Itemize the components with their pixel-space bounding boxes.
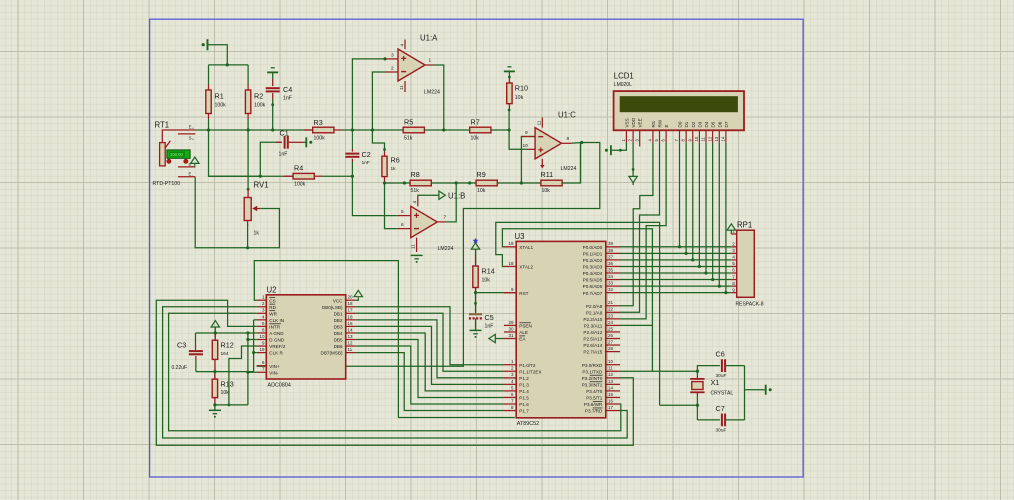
node C1 riser on R4 row [259, 175, 262, 178]
svg-text:10k: 10k [221, 390, 230, 396]
svg-text:10k: 10k [477, 188, 486, 194]
pin 4 stem U1:B with right arrow terminal [417, 197, 419, 207]
wire P0.5 row [620, 279, 731, 281]
svg-text:R13: R13 [221, 380, 234, 389]
pin 28 P2.7/A15 of U3 [606, 351, 620, 353]
svg-text:P2.7/A15: P2.7/A15 [583, 350, 602, 355]
node U1:B output riser [455, 181, 458, 184]
wire C6 right [725, 365, 744, 367]
wire R9 to R11 [497, 182, 541, 184]
pin 9 RST of U3 [504, 292, 516, 294]
svg-text:P2.4/A12: P2.4/A12 [583, 330, 602, 335]
svg-text:RD: RD [269, 305, 276, 310]
svg-text:D0: D0 [678, 121, 683, 127]
svg-text:VIN+: VIN+ [269, 364, 280, 369]
pin 20 VCC of U2 with power terminal [346, 299, 356, 301]
svg-text:17: 17 [608, 405, 614, 410]
wire U1:B pin5 stub [398, 215, 411, 217]
svg-text:P0.0/AD0: P0.0/AD0 [583, 245, 603, 250]
pin 6 of RP1 [731, 272, 736, 274]
svg-text:R2: R2 [254, 92, 263, 101]
wire crystal top node up to C6 row [697, 366, 720, 372]
svg-text:11: 11 [399, 85, 405, 90]
svg-text:12: 12 [608, 372, 614, 377]
svg-text:38: 38 [608, 248, 614, 253]
svg-text:15: 15 [608, 392, 614, 397]
svg-text:R6: R6 [391, 156, 400, 165]
capacitor C5 [469, 313, 482, 315]
wire U1:A output [425, 64, 433, 66]
wire P0.4 row [620, 272, 731, 274]
svg-text:164: 164 [221, 351, 229, 357]
pin S+ of RT1 [178, 133, 195, 135]
svg-text:DB0(LSB): DB0(LSB) [322, 305, 343, 310]
resistor pack RP1 RESPACK-8 [737, 230, 755, 297]
ground above C4 [267, 71, 278, 73]
svg-text:RS: RS [651, 121, 656, 127]
wire AGND DGND VIN- R13 tie riser [247, 333, 249, 405]
wire DB1 to P1.1 [355, 313, 504, 371]
op-amp U1:B [411, 206, 438, 237]
node op-amp feedback riser [371, 128, 374, 131]
pin 11 stem U1:A [404, 81, 406, 92]
wire R1 R2 top rail [209, 64, 249, 66]
svg-text:51k: 51k [411, 188, 420, 194]
wire P0.1 row [620, 252, 731, 254]
svg-text:C6: C6 [716, 350, 725, 359]
wire DB6 to P1.6 [355, 346, 504, 404]
wire R12 bottom [214, 359, 216, 371]
wire crystal bottom node to XTAL2 column [660, 404, 698, 406]
svg-text:D5: D5 [711, 121, 716, 127]
pin 10 D GND of U2 [257, 339, 267, 341]
pin 16 P3.6/WR of U3 [606, 403, 620, 405]
svg-text:100k: 100k [254, 103, 266, 109]
svg-text:11: 11 [701, 136, 706, 141]
svg-text:10k: 10k [471, 136, 480, 142]
wire DB3 to P1.3 [355, 326, 504, 384]
svg-text:RT1: RT1 [155, 121, 170, 130]
pin 6 P1.5 of U3 [504, 396, 516, 398]
svg-text:DB7(MSB): DB7(MSB) [321, 351, 343, 356]
svg-text:LCD1: LCD1 [614, 72, 634, 81]
svg-text:12: 12 [348, 340, 354, 345]
capacitor C2 [345, 153, 359, 155]
pin 23 P2.2/A10 of U3 [606, 318, 620, 320]
wire CLK IN stub [254, 319, 257, 321]
wire CLK riser to CLK IN [253, 320, 255, 372]
pin 36 P0.3/AD3 of U3 [606, 265, 620, 267]
capacitor C1 [284, 136, 286, 149]
pin 11 stem U1:B with ground [416, 238, 418, 252]
svg-text:3: 3 [391, 53, 394, 59]
pin 30 ALE of U3 [504, 331, 516, 333]
svg-text:26: 26 [608, 333, 614, 338]
resistor R1 [206, 90, 211, 114]
svg-text:29: 29 [508, 320, 514, 325]
wire R1 node to R4 row [209, 130, 261, 176]
svg-text:P1.7: P1.7 [519, 409, 529, 414]
node E+ R1 [207, 128, 210, 131]
svg-text:0.22uF: 0.22uF [172, 365, 188, 371]
svg-text:13: 13 [714, 136, 719, 141]
wire R4 to C2 bottom node [322, 175, 352, 177]
wire right column [744, 366, 746, 420]
capacitor C6 [721, 359, 723, 372]
sensor RT1 RTD-PT100 [160, 143, 166, 166]
wire DB0 to P1.0 [355, 307, 504, 365]
capacitor C3 [195, 346, 197, 350]
resistor R10 [507, 83, 512, 104]
svg-text:P3.5/T1: P3.5/T1 [586, 396, 603, 401]
wire R14 bottom to RST [475, 288, 477, 293]
svg-text:C5: C5 [485, 313, 494, 322]
wire WR bus [169, 313, 621, 431]
svg-text:RW: RW [658, 119, 663, 127]
svg-text:20: 20 [348, 295, 354, 300]
svg-text:D6: D6 [717, 121, 722, 127]
node [403, 181, 406, 184]
wire P0.0 row [620, 246, 731, 248]
svg-text:C7: C7 [716, 404, 725, 413]
wire R10 bottom [508, 104, 510, 110]
pin 32 P0.7/AD7 of U3 [606, 292, 620, 294]
svg-text:P0.2/AD2: P0.2/AD2 [583, 258, 603, 263]
svg-text:P1.3: P1.3 [519, 382, 529, 387]
svg-text:12: 12 [707, 136, 712, 141]
svg-text:DB5: DB5 [334, 338, 343, 343]
wire R6 jog from feedback node [372, 130, 384, 152]
pin 17 DB1 of U2 [346, 312, 356, 314]
pin 11 stem U1:C [541, 118, 543, 128]
wire C5 bottom to ground [475, 318, 477, 330]
wire R13 bottom [214, 398, 216, 405]
pin 35 P0.4/AD4 of U3 [606, 272, 620, 274]
wire output feedback down [580, 143, 582, 184]
pin 5 of RP1 [731, 265, 736, 267]
svg-text:32: 32 [608, 287, 614, 292]
wire main row [196, 129, 313, 131]
wire [508, 71, 510, 78]
svg-text:XTAL1: XTAL1 [519, 245, 533, 250]
ground arrow below VDD [629, 176, 637, 182]
svg-text:RST: RST [519, 291, 528, 296]
svg-text:U3: U3 [515, 232, 525, 241]
svg-text:18: 18 [508, 261, 514, 266]
wire R7 right [491, 129, 509, 131]
capacitor C4 [266, 87, 280, 89]
svg-text:13: 13 [608, 379, 614, 384]
svg-text:EA: EA [519, 337, 526, 342]
pin 15 P3.5/T1 of U3 [606, 396, 620, 398]
pin 14 P3.4/T0 of U3 [606, 390, 620, 392]
pin 8 of RP1 [731, 285, 736, 287]
svg-text:10: 10 [259, 334, 265, 339]
pin 13 P3.3/INT1 of U3 [606, 383, 620, 385]
svg-text:P2.3/A11: P2.3/A11 [584, 324, 603, 329]
svg-text:24: 24 [608, 320, 614, 325]
pin 8 P1.7 of U3 [504, 410, 516, 412]
wire R1 bottom [208, 114, 210, 120]
ground above R10 [504, 70, 515, 72]
wire LCD D0 riser [679, 143, 681, 247]
wire R5 to R7 [424, 129, 469, 131]
svg-text:27: 27 [608, 339, 614, 344]
wire R12 top stub [214, 333, 216, 340]
svg-text:11: 11 [411, 244, 417, 249]
svg-text:VEE: VEE [638, 118, 643, 127]
pin 27 P2.6/A14 of U3 [606, 344, 620, 346]
svg-text:E: E [664, 124, 669, 127]
svg-text:1nF: 1nF [485, 324, 494, 330]
svg-text:U2: U2 [267, 285, 277, 294]
wire U1:C output [562, 142, 572, 144]
pin 2 RD of U2 [257, 306, 267, 308]
wire C2 top [351, 130, 353, 149]
pin 19 XTAL1 of U3 [504, 246, 516, 248]
IC U3 AT89C52 body [516, 241, 606, 417]
pin 5 INTR of U2 [257, 325, 267, 327]
wire LCD D6 riser [718, 143, 720, 286]
svg-text:P3.7/RD: P3.7/RD [585, 409, 603, 414]
wire XTAL2 route [496, 222, 660, 405]
svg-text:21: 21 [608, 300, 614, 305]
wire R14 top [475, 255, 477, 266]
pin 7 of RP1 [731, 279, 736, 281]
pin 1 P1.0/T2 of U3 [504, 364, 516, 366]
node C4 bottom [271, 128, 274, 131]
node R6 bottom on R8 row [383, 181, 386, 184]
node A GND riser [246, 331, 249, 334]
svg-text:19: 19 [259, 347, 265, 352]
wire LCD D5 riser [712, 143, 714, 280]
svg-text:VCC: VCC [333, 298, 343, 303]
wire to ground right [745, 389, 766, 391]
pin 18 DB0(LSB) of U2 [346, 306, 356, 308]
svg-text:R10: R10 [515, 84, 528, 93]
wire C4 bottom [272, 93, 274, 99]
svg-text:P1.0/T2: P1.0/T2 [519, 363, 536, 368]
pin 24 P2.3/A11 of U3 [606, 324, 620, 326]
pin 7 P1.6 of U3 [504, 403, 516, 405]
pin 3 WR of U2 [257, 312, 267, 314]
svg-text:7: 7 [444, 215, 447, 221]
pin 12 P3.2/INT0 of U3 [606, 377, 620, 379]
svg-text:35: 35 [608, 267, 614, 272]
svg-text:D7: D7 [724, 121, 729, 127]
pin 19 CLK R of U2 [257, 352, 267, 354]
svg-text:INTR: INTR [269, 325, 280, 330]
pin 39 P0.0/AD0 of U3 [606, 246, 620, 248]
svg-text:P1.4: P1.4 [519, 389, 529, 394]
svg-text:CLK IN: CLK IN [269, 318, 284, 323]
svg-text:P0.4/AD4: P0.4/AD4 [583, 271, 603, 276]
svg-text:100k: 100k [294, 182, 306, 188]
svg-text:X1: X1 [711, 378, 720, 387]
svg-text:A GND: A GND [269, 331, 284, 336]
node D GND [246, 338, 249, 341]
pin 33 P0.6/AD6 of U3 [606, 285, 620, 287]
resistor R7 [470, 127, 491, 133]
wire A GND corner down to C3 top [195, 333, 197, 346]
node C2 top [351, 128, 354, 131]
svg-text:P1.5: P1.5 [519, 396, 529, 401]
svg-text:14: 14 [721, 136, 726, 141]
terminal arrow at EA [489, 334, 495, 342]
svg-text:CLK R: CLK R [269, 351, 283, 356]
svg-text:28: 28 [608, 346, 614, 351]
svg-text:P3.6/WR: P3.6/WR [584, 402, 603, 407]
svg-text:R12: R12 [221, 341, 234, 350]
wire P0.7 row [620, 292, 731, 294]
svg-text:VSS: VSS [624, 118, 629, 127]
svg-text:100.00: 100.00 [170, 152, 183, 157]
LCD1 LM020L display [614, 91, 744, 130]
svg-text:DB2: DB2 [334, 318, 343, 323]
wire [209, 45, 228, 65]
node CLK R tie [252, 351, 255, 354]
svg-text:+: + [192, 137, 194, 141]
svg-text:10: 10 [694, 136, 699, 141]
wire DB2 to P1.2 [355, 320, 504, 378]
wire to R5 [372, 129, 403, 131]
resistor R5 [403, 127, 424, 133]
svg-text:LM224: LM224 [424, 90, 440, 96]
pin S- of RT1 with terminal [178, 166, 195, 168]
svg-text:2: 2 [391, 66, 394, 72]
svg-text:P0.6/AD6: P0.6/AD6 [583, 284, 603, 289]
wire R1 top [208, 65, 210, 85]
svg-text:RV1: RV1 [254, 180, 269, 189]
svg-text:RTD-PT100: RTD-PT100 [153, 181, 181, 187]
capacitor C7 [697, 419, 720, 421]
wiper of RV1 [252, 206, 257, 211]
resistor R12 [212, 340, 217, 359]
ground right of C1 [305, 137, 307, 147]
op-amp U1:C [535, 128, 561, 159]
wire C1 left to R4 row [260, 142, 282, 176]
wire RW to P2.1 [620, 143, 660, 312]
wire RS to P2.0 [620, 143, 653, 306]
wire R11 right to feedback riser [562, 143, 580, 184]
wire CLK row right [215, 371, 254, 373]
svg-text:18: 18 [348, 301, 354, 306]
wire U1:C pin9 input [521, 137, 535, 184]
svg-text:D2: D2 [691, 121, 696, 127]
pin 2 of RP1 [731, 246, 736, 248]
svg-text:10k: 10k [482, 278, 491, 284]
wire LCD D7 riser [725, 143, 727, 293]
svg-text:7: 7 [262, 367, 265, 373]
svg-text:DB6: DB6 [334, 344, 343, 349]
op-amp U1:A [398, 49, 425, 81]
svg-text:39: 39 [608, 241, 614, 246]
pin 26 P2.5/A13 of U3 [606, 338, 620, 340]
IC U2 ADC0804 body [266, 295, 345, 379]
svg-text:DB1: DB1 [334, 311, 343, 316]
resistor R13 [212, 379, 217, 398]
svg-text:33: 33 [608, 281, 614, 286]
wire R13 top [214, 372, 216, 380]
svg-text:R11: R11 [541, 170, 554, 179]
pin 38 P0.1/AD1 of U3 [606, 252, 620, 254]
wire C2 bottom [351, 159, 353, 162]
wire XTAL1 route [502, 229, 652, 371]
svg-text:100k: 100k [215, 103, 227, 109]
svg-text:R14: R14 [482, 267, 495, 276]
node VIN- tie [246, 371, 249, 374]
svg-text:AT89C52: AT89C52 [517, 421, 539, 427]
wire U1:B pin6 input [385, 183, 398, 229]
node output [580, 141, 583, 144]
wire P0.3 row [620, 265, 731, 267]
svg-text:11: 11 [537, 120, 543, 125]
wire output to VIN+ long path [257, 143, 600, 367]
svg-text:R8: R8 [411, 170, 420, 179]
svg-text:P0.7/AD7: P0.7/AD7 [583, 291, 603, 296]
node RV1 bottom [246, 246, 249, 249]
svg-text:11: 11 [348, 347, 353, 352]
pin 5 P1.4 of U3 [504, 390, 516, 392]
svg-text:ALE: ALE [519, 330, 528, 335]
pin 34 P0.5/AD5 of U3 [606, 279, 620, 281]
svg-text:25: 25 [608, 326, 614, 331]
svg-text:P2.5/A13: P2.5/A13 [583, 337, 602, 342]
svg-text:1: 1 [429, 58, 432, 64]
wire C3 bottom [195, 356, 197, 360]
node A GND R12 arrow [214, 331, 217, 334]
svg-text:XTAL2: XTAL2 [519, 265, 533, 270]
node junction [226, 63, 229, 66]
node R12 R13 C3 CLK [213, 370, 216, 373]
svg-text:P2.0/A8: P2.0/A8 [586, 304, 603, 309]
svg-text:+: + [192, 127, 194, 131]
pin 9 VREF/2 of U2 [257, 345, 267, 347]
crystal X1 [696, 371, 698, 375]
pin E+ of RT1 [162, 130, 195, 143]
svg-text:D GND: D GND [269, 338, 284, 343]
wire RD bus [163, 307, 628, 438]
wire R6 bottom [384, 177, 386, 183]
wire LCD VDD down [632, 143, 634, 177]
ground below C5 [470, 329, 482, 331]
power terminal with star above R14 [473, 238, 479, 243]
wire E to P2.2 [620, 143, 666, 319]
wire RST [476, 292, 505, 294]
svg-text:5: 5 [401, 209, 404, 215]
svg-text:P2.1/A9: P2.1/A9 [586, 310, 603, 315]
svg-text:4: 4 [400, 44, 406, 47]
svg-text:1nF: 1nF [283, 96, 292, 102]
svg-text:VDD: VDD [631, 117, 636, 127]
sheet border [150, 19, 804, 477]
resistor R8 [410, 180, 431, 186]
pin 3 P1.2 of U3 [504, 377, 516, 379]
svg-text:VIN-: VIN- [269, 370, 279, 375]
svg-text:CS: CS [269, 298, 275, 303]
svg-text:19: 19 [508, 241, 514, 246]
svg-text:1nF: 1nF [279, 152, 288, 158]
wire R13 node row [215, 404, 248, 406]
svg-text:15: 15 [348, 321, 354, 326]
svg-text:36: 36 [608, 261, 614, 266]
pin 31 EA of U3 [504, 338, 516, 340]
svg-text:C3: C3 [177, 341, 186, 350]
node U1:C pin9 riser [520, 181, 523, 184]
wire U1:A pin3 input [352, 59, 385, 130]
wire VIN- stub [248, 371, 257, 373]
svg-text:11: 11 [608, 366, 613, 371]
